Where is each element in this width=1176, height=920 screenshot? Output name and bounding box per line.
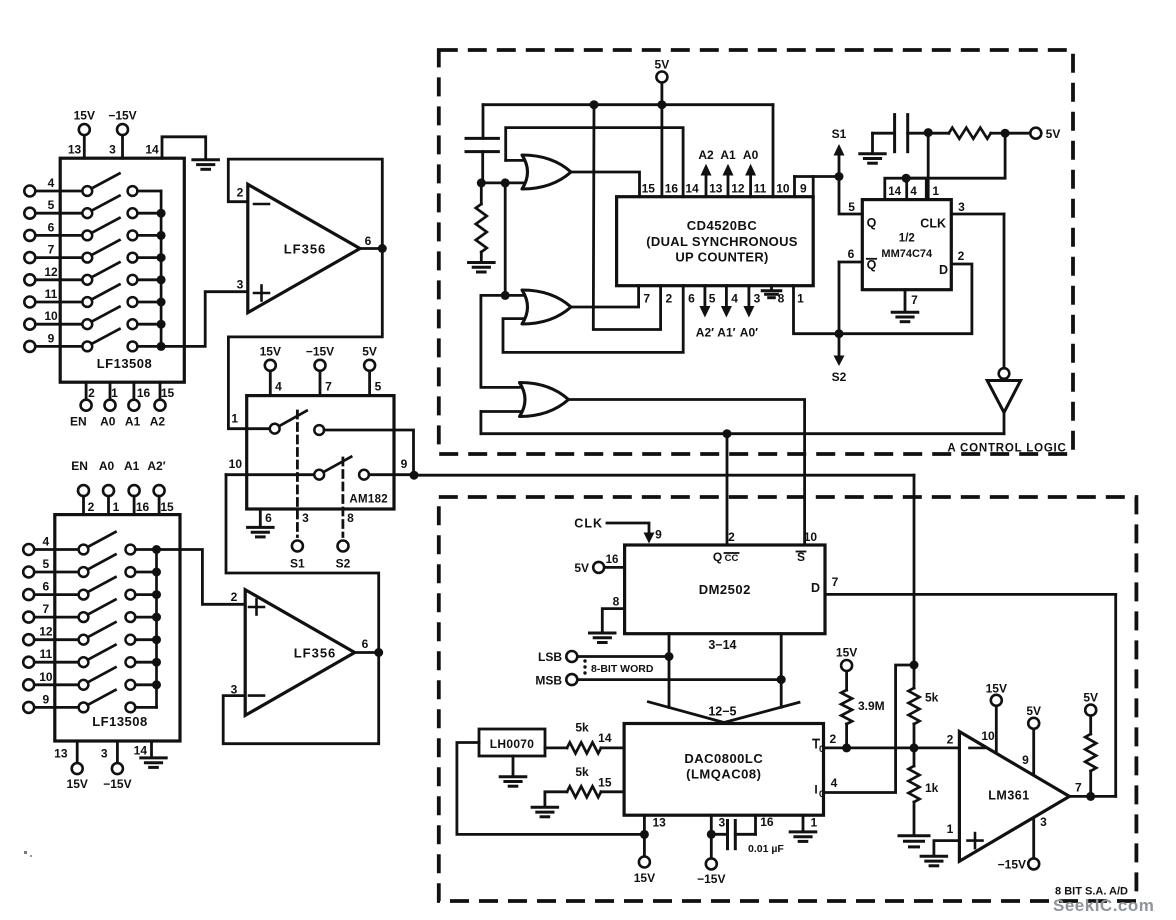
svg-text:5: 5 bbox=[848, 200, 855, 214]
svg-text:0.01 µF: 0.01 µF bbox=[748, 843, 784, 855]
svg-text:5V: 5V bbox=[1046, 127, 1061, 141]
svg-text:A0: A0 bbox=[99, 459, 115, 473]
svg-text:3: 3 bbox=[754, 292, 761, 306]
svg-text:5k: 5k bbox=[575, 721, 589, 735]
svg-text:14: 14 bbox=[888, 186, 901, 198]
svg-text:7: 7 bbox=[643, 292, 650, 306]
svg-text:2: 2 bbox=[958, 249, 965, 263]
svg-text:12−5: 12−5 bbox=[708, 705, 736, 719]
svg-text:9: 9 bbox=[48, 331, 55, 345]
svg-text:9: 9 bbox=[800, 182, 807, 196]
svg-text:16: 16 bbox=[136, 500, 150, 514]
svg-text:3: 3 bbox=[958, 200, 965, 214]
svg-text:16: 16 bbox=[665, 182, 679, 196]
svg-text:4: 4 bbox=[731, 292, 738, 306]
svg-text:6: 6 bbox=[43, 580, 50, 594]
svg-text:3.9M: 3.9M bbox=[858, 699, 885, 713]
svg-text:10: 10 bbox=[804, 530, 818, 544]
svg-text:SeekIC.com: SeekIC.com bbox=[1053, 896, 1154, 915]
svg-text:11: 11 bbox=[40, 647, 53, 661]
svg-text:S2: S2 bbox=[832, 370, 847, 384]
svg-text:8-BIT WORD: 8-BIT WORD bbox=[591, 663, 654, 675]
svg-text:UP COUNTER): UP COUNTER) bbox=[675, 250, 768, 265]
svg-text:2: 2 bbox=[237, 186, 244, 200]
svg-text:15: 15 bbox=[160, 500, 174, 514]
svg-text:Q: Q bbox=[867, 258, 877, 272]
svg-text:7: 7 bbox=[1075, 781, 1082, 795]
svg-text:1: 1 bbox=[811, 816, 818, 830]
svg-text:3: 3 bbox=[1040, 815, 1047, 829]
svg-text:2: 2 bbox=[665, 292, 672, 306]
svg-text:5V: 5V bbox=[362, 345, 377, 359]
svg-text:4: 4 bbox=[910, 186, 917, 198]
svg-text:A1: A1 bbox=[720, 148, 736, 162]
svg-text:13: 13 bbox=[709, 182, 723, 196]
svg-text:4: 4 bbox=[275, 380, 282, 394]
svg-text:5: 5 bbox=[48, 198, 55, 212]
svg-text:14: 14 bbox=[598, 731, 612, 745]
svg-text:14: 14 bbox=[145, 143, 159, 157]
svg-text:7: 7 bbox=[325, 380, 332, 394]
svg-text:15: 15 bbox=[161, 386, 175, 400]
svg-text:A1: A1 bbox=[124, 459, 140, 473]
svg-text:12: 12 bbox=[731, 182, 745, 196]
svg-text:5: 5 bbox=[43, 557, 50, 571]
svg-text:1k: 1k bbox=[925, 781, 939, 795]
svg-text:A0: A0 bbox=[100, 415, 116, 429]
svg-text:CD4520BC: CD4520BC bbox=[687, 218, 758, 233]
svg-text:15V: 15V bbox=[67, 777, 88, 791]
svg-text:LF356: LF356 bbox=[284, 242, 327, 257]
svg-text:3: 3 bbox=[302, 511, 309, 525]
svg-text:A0: A0 bbox=[743, 148, 759, 162]
svg-text:6: 6 bbox=[48, 220, 55, 234]
svg-text:13: 13 bbox=[68, 143, 82, 157]
svg-text:3: 3 bbox=[231, 683, 238, 697]
svg-text:12: 12 bbox=[44, 265, 58, 279]
svg-text:−15V: −15V bbox=[306, 345, 334, 359]
svg-text:EN: EN bbox=[70, 415, 87, 429]
svg-text:2: 2 bbox=[231, 590, 238, 604]
svg-text:15: 15 bbox=[642, 182, 656, 196]
svg-text:5V: 5V bbox=[655, 58, 670, 72]
svg-text:Q: Q bbox=[713, 550, 722, 564]
svg-text:14: 14 bbox=[685, 182, 699, 196]
svg-text:5V: 5V bbox=[1026, 704, 1041, 718]
svg-text:D: D bbox=[811, 581, 820, 595]
svg-text:5k: 5k bbox=[925, 691, 939, 705]
svg-text:11: 11 bbox=[754, 182, 767, 196]
svg-text:−15V: −15V bbox=[108, 109, 136, 123]
svg-text:A2: A2 bbox=[150, 415, 166, 429]
svg-text:CLK: CLK bbox=[920, 217, 946, 231]
svg-text:I: I bbox=[814, 783, 817, 797]
svg-text:5: 5 bbox=[709, 292, 716, 306]
svg-text:15V: 15V bbox=[986, 682, 1007, 696]
svg-text:3−14: 3−14 bbox=[708, 638, 736, 652]
svg-text:A1′: A1′ bbox=[717, 326, 735, 340]
svg-text:A2: A2 bbox=[698, 148, 714, 162]
svg-text:10: 10 bbox=[44, 309, 58, 323]
svg-text:−15V: −15V bbox=[998, 858, 1026, 872]
svg-text:AM182: AM182 bbox=[349, 494, 388, 506]
svg-text:10: 10 bbox=[776, 182, 790, 196]
svg-text:MSB: MSB bbox=[535, 674, 562, 688]
svg-text:Q: Q bbox=[867, 216, 877, 230]
svg-text:3: 3 bbox=[719, 816, 726, 830]
svg-text:A CONTROL LOGIC: A CONTROL LOGIC bbox=[947, 443, 1066, 455]
svg-text:0: 0 bbox=[819, 789, 824, 799]
svg-text:5V: 5V bbox=[574, 561, 589, 575]
svg-text:9: 9 bbox=[655, 528, 662, 542]
svg-text:2: 2 bbox=[88, 386, 95, 400]
svg-text:6: 6 bbox=[848, 247, 855, 261]
svg-text:2: 2 bbox=[88, 500, 95, 514]
svg-text:CLK: CLK bbox=[574, 517, 603, 531]
svg-text:13: 13 bbox=[54, 747, 68, 761]
svg-text:D: D bbox=[939, 263, 948, 277]
svg-text:2: 2 bbox=[947, 733, 954, 747]
svg-text:7: 7 bbox=[48, 243, 55, 257]
svg-text:12: 12 bbox=[39, 625, 53, 639]
svg-text:13: 13 bbox=[653, 816, 667, 830]
svg-text:1: 1 bbox=[797, 292, 804, 306]
svg-text:5k: 5k bbox=[575, 765, 589, 779]
svg-text:15V: 15V bbox=[836, 646, 857, 660]
svg-text:1: 1 bbox=[932, 184, 939, 198]
svg-text:4: 4 bbox=[831, 776, 838, 790]
svg-text:6: 6 bbox=[265, 511, 272, 525]
svg-text:6: 6 bbox=[688, 292, 695, 306]
svg-text:3: 3 bbox=[101, 747, 108, 761]
svg-text:1: 1 bbox=[231, 412, 238, 426]
svg-text:10: 10 bbox=[981, 729, 995, 743]
svg-text:9: 9 bbox=[401, 457, 408, 471]
svg-text:MM74C74: MM74C74 bbox=[881, 248, 933, 260]
svg-text:7: 7 bbox=[911, 293, 918, 307]
svg-text:DAC0800LC: DAC0800LC bbox=[684, 751, 763, 766]
svg-text:2: 2 bbox=[830, 732, 837, 746]
svg-text:16: 16 bbox=[760, 815, 774, 829]
svg-text:5: 5 bbox=[375, 380, 382, 394]
svg-text:15V: 15V bbox=[74, 109, 95, 123]
svg-text:14: 14 bbox=[134, 744, 148, 758]
svg-text:16: 16 bbox=[137, 386, 151, 400]
svg-text:5V: 5V bbox=[1083, 691, 1098, 705]
svg-text:7: 7 bbox=[43, 602, 50, 616]
svg-text:1: 1 bbox=[111, 386, 118, 400]
svg-text:(LMQAC08): (LMQAC08) bbox=[686, 767, 761, 782]
svg-text:(DUAL SYNCHRONOUS: (DUAL SYNCHRONOUS bbox=[646, 234, 798, 249]
svg-text:3: 3 bbox=[237, 278, 244, 292]
svg-text:LH0070: LH0070 bbox=[490, 737, 535, 751]
svg-text:DM2502: DM2502 bbox=[699, 582, 751, 597]
svg-text:A1: A1 bbox=[125, 415, 141, 429]
svg-text:16: 16 bbox=[606, 554, 619, 566]
svg-text:A0′: A0′ bbox=[740, 326, 758, 340]
svg-text:9: 9 bbox=[43, 692, 50, 706]
svg-text:15: 15 bbox=[598, 776, 612, 790]
svg-text:EN: EN bbox=[71, 459, 88, 473]
svg-text:1: 1 bbox=[113, 500, 120, 514]
svg-text:8: 8 bbox=[613, 595, 620, 609]
svg-text:15V: 15V bbox=[634, 871, 655, 885]
svg-text:S1: S1 bbox=[290, 557, 305, 571]
svg-text:A2′: A2′ bbox=[147, 459, 165, 473]
svg-text:LF13508: LF13508 bbox=[92, 714, 148, 729]
svg-text:LSB: LSB bbox=[538, 650, 562, 664]
svg-text:A2′: A2′ bbox=[696, 326, 714, 340]
svg-text:4: 4 bbox=[43, 535, 50, 549]
svg-text:−15V: −15V bbox=[697, 872, 725, 886]
svg-text:6: 6 bbox=[362, 637, 369, 651]
svg-text:2: 2 bbox=[728, 530, 735, 544]
svg-text:1/2: 1/2 bbox=[899, 233, 915, 245]
svg-text:10: 10 bbox=[229, 457, 243, 471]
svg-text:11: 11 bbox=[45, 287, 58, 301]
svg-text:7: 7 bbox=[832, 575, 839, 589]
svg-text:6: 6 bbox=[365, 234, 372, 248]
svg-text:LM361: LM361 bbox=[988, 789, 1029, 803]
svg-text:S1: S1 bbox=[832, 127, 847, 141]
svg-text:1: 1 bbox=[947, 822, 954, 836]
svg-text:4: 4 bbox=[48, 176, 55, 190]
svg-text:9: 9 bbox=[1022, 753, 1029, 767]
svg-text:15V: 15V bbox=[260, 345, 281, 359]
svg-text:S2: S2 bbox=[336, 557, 351, 571]
svg-text:10: 10 bbox=[39, 670, 53, 684]
svg-text:LF356: LF356 bbox=[294, 646, 337, 661]
svg-text:−15V: −15V bbox=[103, 777, 131, 791]
svg-text:CC: CC bbox=[725, 553, 739, 564]
svg-text:8: 8 bbox=[347, 511, 354, 525]
svg-text:LF13508: LF13508 bbox=[97, 356, 153, 371]
svg-text:3: 3 bbox=[109, 143, 116, 157]
